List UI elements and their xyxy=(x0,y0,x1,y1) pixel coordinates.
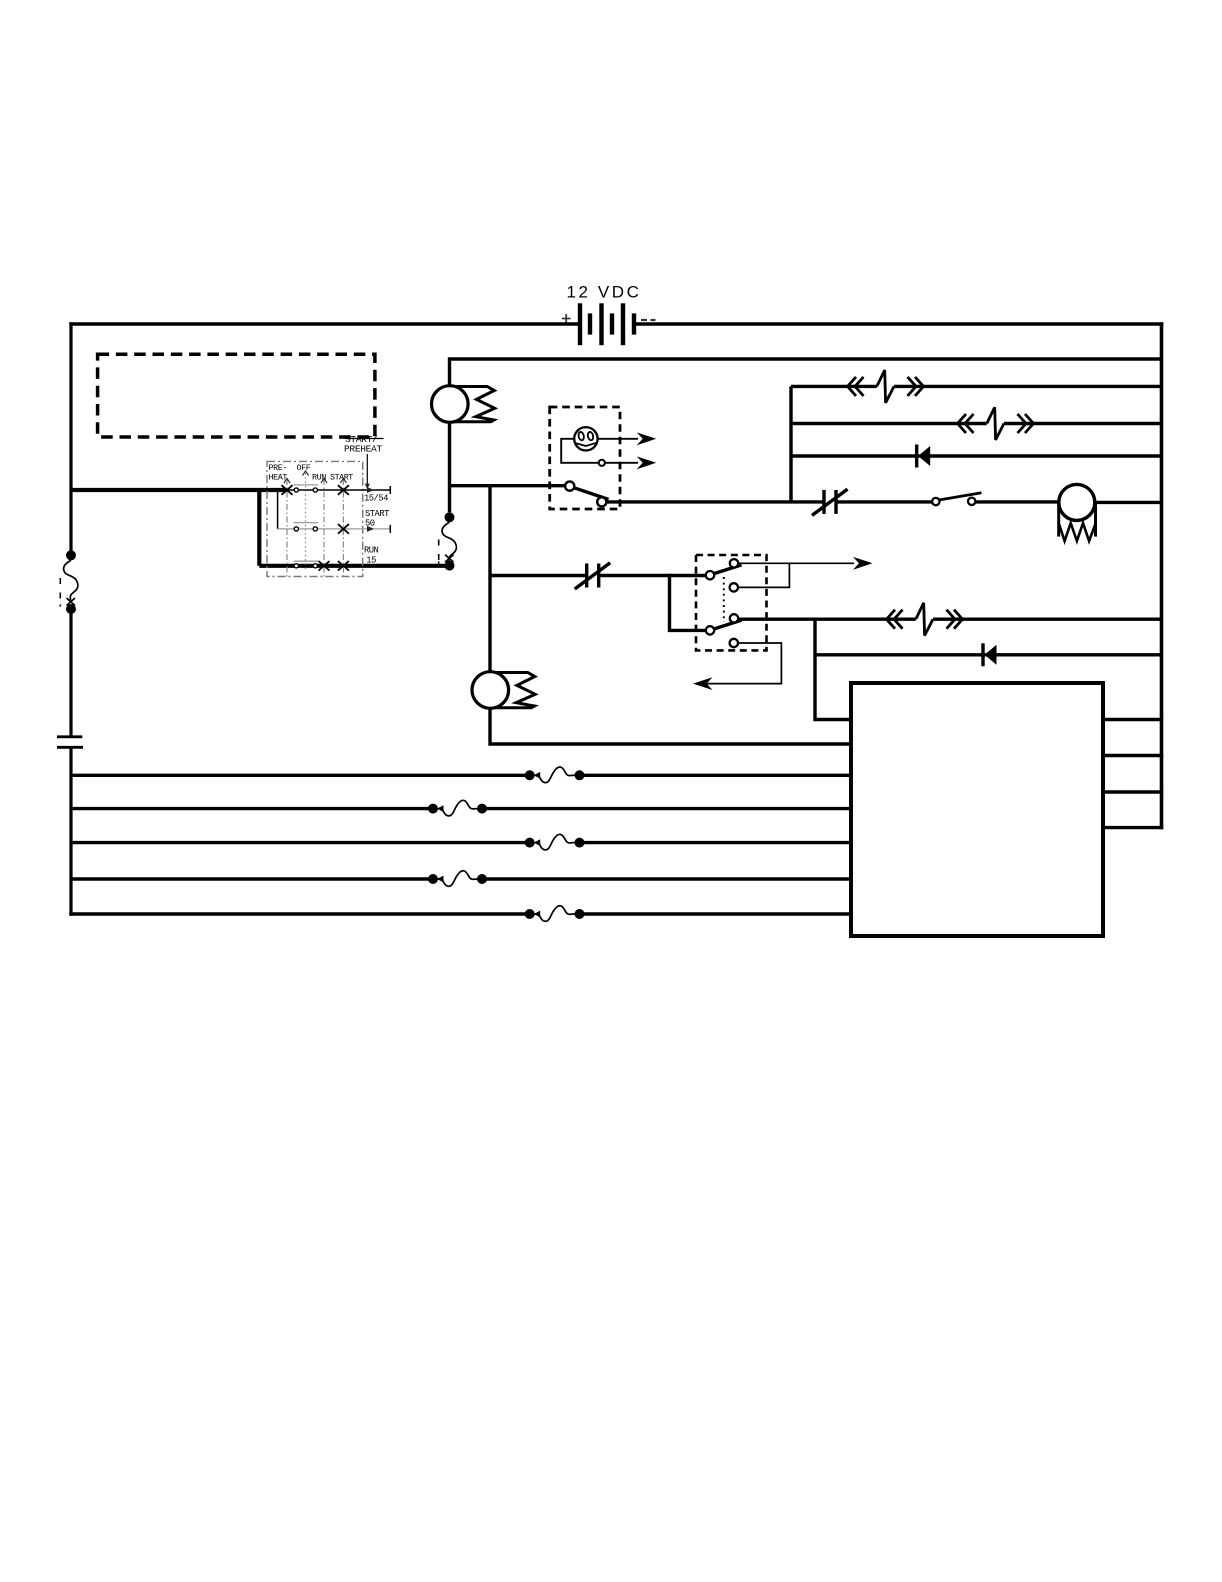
wire row A left xyxy=(791,385,877,388)
wire top bus left (battery + to left rail) xyxy=(69,322,578,325)
ignition switch S1 column PRE-HEAT xyxy=(286,479,288,578)
wire lamp-switch feed xyxy=(448,484,565,487)
fuse F3 xyxy=(525,834,585,850)
arrow terminal lead xyxy=(637,456,657,469)
ignition switch S1 row 15/54 arrow xyxy=(367,487,374,493)
wire harness row 1 left xyxy=(71,774,526,777)
wire K1 to S2 xyxy=(836,500,932,503)
wire lamp right lead xyxy=(598,438,638,440)
svg-text:15/54: 15/54 xyxy=(364,494,388,504)
inline connector J1 xyxy=(848,370,924,403)
switch S4 (lamp box) pivot xyxy=(565,482,574,491)
label PRE-HEAT xyxy=(269,463,288,482)
wire riser 791 xyxy=(789,386,792,502)
label START xyxy=(330,472,353,482)
module box (controller) xyxy=(851,683,1103,936)
svg-text:HEAT: HEAT xyxy=(269,472,288,482)
connector contact K2 (crossed) xyxy=(575,563,611,589)
indicator lamp L1 xyxy=(574,427,597,450)
fuse F2 xyxy=(428,800,487,816)
fuse F4 xyxy=(428,871,487,887)
svg-text:15: 15 xyxy=(366,555,376,565)
wire harness row 5 left xyxy=(69,912,525,915)
svg-text:12 VDC: 12 VDC xyxy=(566,283,641,302)
wire dual switch branch xyxy=(670,574,706,631)
circuit breaker CB2 xyxy=(439,512,457,570)
connector contact K1 (crossed) xyxy=(812,489,848,515)
label START 50 xyxy=(365,509,389,528)
ignition switch S1 row 50 arrow xyxy=(367,526,374,532)
battery B1 12V xyxy=(562,303,656,345)
ignition switch S1 column START xyxy=(342,479,344,578)
glow plug R1 (lighter element) xyxy=(432,386,495,423)
switch S3a contact upper xyxy=(730,559,738,567)
wire glow plug R1 stem bottom xyxy=(448,422,451,513)
ignition switch S1 column arrows xyxy=(284,471,346,483)
arrow S3a signal xyxy=(853,557,873,570)
ignition switch S1 enclosure xyxy=(267,461,363,576)
ignition switch S1 row 50 end tick xyxy=(389,525,391,533)
switch S3b contact upper xyxy=(730,614,738,622)
wire row 619 right xyxy=(933,618,1162,621)
wire row 575 left xyxy=(490,574,587,577)
wire left rail mid xyxy=(69,613,72,736)
wire glow plug R2 stem xyxy=(490,708,851,744)
ignition switch S1 tap to row 50 xyxy=(277,490,279,529)
ignition switch S1 row 15/54 xyxy=(288,489,390,491)
svg-text:50: 50 xyxy=(365,519,375,529)
wire row B right xyxy=(1004,422,1162,425)
svg-text:PREHEAT: PREHEAT xyxy=(344,444,382,455)
ignition switch S1 column RUN xyxy=(323,479,325,578)
capacitor C1 xyxy=(57,737,83,748)
dashed enclosure (instrument panel) xyxy=(98,354,375,437)
wire harness row 4 right xyxy=(486,877,851,880)
diode D2 xyxy=(983,643,997,666)
switch S3a pivot xyxy=(706,571,714,579)
wire harness row 5 right xyxy=(584,912,852,915)
fuse F5 xyxy=(525,906,585,922)
diode D1 xyxy=(917,445,931,468)
wire top bus right (battery - to right rail) xyxy=(636,322,1163,325)
arrow S3b return xyxy=(693,677,713,690)
wire row B left xyxy=(791,422,987,425)
wire row 619 left xyxy=(738,618,916,621)
label 15/54 xyxy=(364,494,388,504)
wire branch riser to row 575 xyxy=(488,484,491,672)
label START/PREHEAT callout xyxy=(344,434,384,489)
svg-text:RUN: RUN xyxy=(364,546,379,556)
glow plug R2 (lighter element) xyxy=(472,672,535,709)
inline connector J2 xyxy=(958,407,1034,440)
wire RUN 15 row (thick) xyxy=(259,564,445,568)
wire lamp left leg xyxy=(561,439,599,463)
wire branch 815 xyxy=(815,618,851,720)
switch S3b contact lower xyxy=(730,639,738,647)
ignition switch S1 contact circles xyxy=(294,488,317,568)
wire S3b lower bracket xyxy=(700,643,781,684)
wire switch S4 to contact row xyxy=(606,500,824,503)
wire left rail upper xyxy=(69,322,72,550)
inline connector J3 xyxy=(887,603,963,636)
wire module pin 3 xyxy=(1103,790,1163,793)
wire module pin 2 xyxy=(1103,754,1163,757)
wire S3a lower bracket xyxy=(738,563,789,587)
ignition switch S1 X contacts xyxy=(282,485,349,570)
wire second bus xyxy=(450,357,1162,360)
label 12 VDC xyxy=(566,283,641,302)
mechanical link S3 (dotted) xyxy=(723,577,725,622)
wire harness row 3 right xyxy=(584,841,852,844)
wire module pin 4 xyxy=(1103,826,1163,829)
wire harness row 2 left xyxy=(71,807,429,810)
wire diode row A xyxy=(791,454,1162,457)
wire starter to right rail xyxy=(1095,501,1162,504)
wire S2 to starter xyxy=(975,500,1059,503)
label RUN 15 xyxy=(364,546,379,566)
switch S2 (open) xyxy=(932,493,981,506)
wire harness row 3 left xyxy=(71,841,526,844)
switch S3a contact lower xyxy=(730,583,738,591)
wire harness row 4 left xyxy=(71,877,429,880)
terminal circle lamp leg xyxy=(599,460,605,466)
wire diode row B xyxy=(815,653,1162,656)
svg-text:OFF: OFF xyxy=(297,463,311,473)
lamp enclosure (dashed) xyxy=(550,407,620,509)
dual switch S3 enclosure xyxy=(696,555,767,650)
arrow lamp lead xyxy=(637,432,657,445)
wire harness row 2 right xyxy=(486,807,851,810)
label OFF xyxy=(297,463,311,473)
svg-text:RUN: RUN xyxy=(312,472,326,482)
wire module pin 1 xyxy=(1103,718,1163,721)
label RUN xyxy=(312,472,326,482)
svg-text:START: START xyxy=(330,472,353,482)
wire ignition feed from left rail xyxy=(70,488,289,492)
wire harness row 1 right xyxy=(584,774,852,777)
ignition switch S1 bridge bars xyxy=(294,485,319,561)
wire terminal lead xyxy=(605,462,638,464)
switch S3a blade xyxy=(714,565,742,574)
switch S4 blade xyxy=(574,488,609,500)
switch S3b pivot xyxy=(706,626,714,634)
switch S4 contact xyxy=(597,497,606,506)
circuit breaker CB1 xyxy=(60,550,78,614)
wire left rail lower xyxy=(69,747,72,915)
wire K2 to dual switch xyxy=(599,574,706,577)
starter motor M1 xyxy=(1059,484,1096,541)
wire S3a signal xyxy=(738,562,854,564)
wire row A right xyxy=(894,385,1162,388)
ignition switch S1 row 15/54 end tick xyxy=(389,486,391,494)
wire ignition feed drop xyxy=(257,488,261,566)
ignition switch S1 row 50 xyxy=(278,528,391,530)
switch S3b blade xyxy=(714,620,742,629)
wire right rail xyxy=(1160,322,1164,829)
wire glow plug R1 stem top xyxy=(448,357,451,386)
fuse F1 xyxy=(525,767,585,783)
ignition switch S1 column OFF xyxy=(305,473,307,570)
